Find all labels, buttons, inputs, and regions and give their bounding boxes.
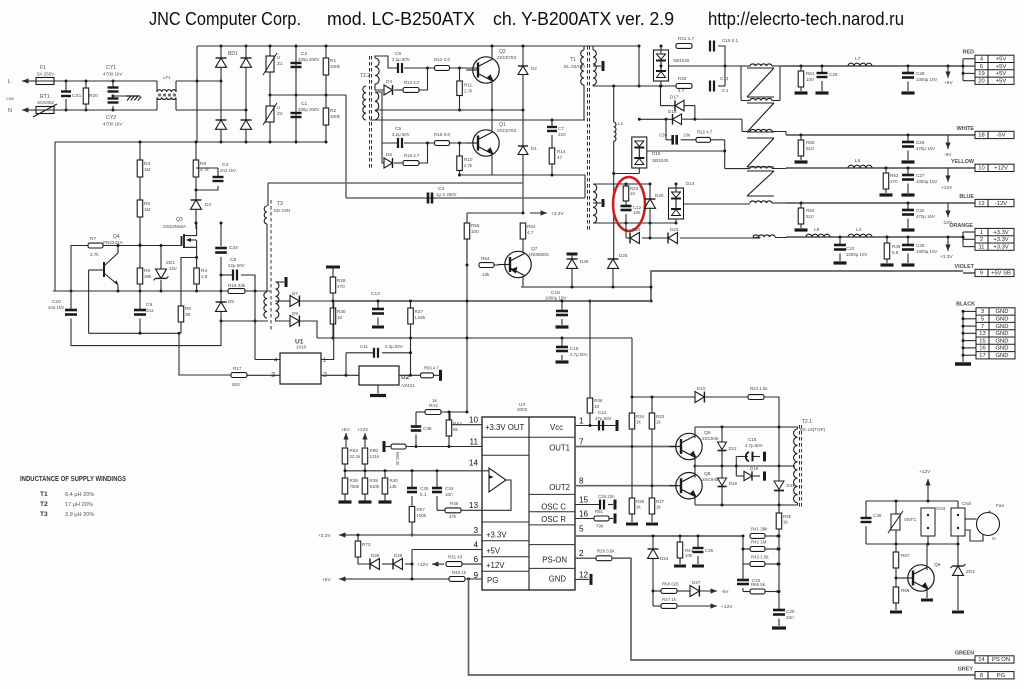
svg-text:39k: 39k	[144, 274, 152, 279]
svg-text:+12V: +12V	[941, 185, 953, 191]
svg-text:22.1k: 22.1k	[350, 454, 362, 459]
svg-text:R54: R54	[806, 208, 815, 213]
svg-text:R13 4.7: R13 4.7	[404, 80, 420, 85]
svg-text:7: 7	[981, 324, 984, 330]
svg-text:R68: R68	[901, 588, 910, 593]
svg-text:R20: R20	[89, 93, 98, 99]
svg-text:0.1: 0.1	[420, 492, 427, 497]
svg-text:16: 16	[979, 346, 985, 352]
svg-text:R50: R50	[806, 140, 815, 145]
svg-text:C21: C21	[598, 410, 607, 415]
svg-text:8: 8	[579, 477, 584, 486]
svg-text:C19 0.1: C19 0.1	[722, 38, 739, 43]
svg-text:10k: 10k	[685, 553, 693, 558]
svg-text:1000μ 10V: 1000μ 10V	[916, 77, 937, 82]
svg-text:PG: PG	[487, 576, 498, 585]
svg-text:+3.3V: +3.3V	[486, 531, 507, 540]
svg-text:C20: C20	[786, 609, 795, 614]
svg-text:18: 18	[978, 133, 984, 139]
svg-text:GREEN: GREEN	[955, 651, 974, 657]
svg-text:CY1: CY1	[106, 65, 116, 71]
svg-text:6: 6	[980, 64, 983, 70]
svg-text:3.9 μH 20%: 3.9 μH 20%	[65, 512, 94, 518]
svg-text:R42 1M: R42 1M	[751, 540, 767, 545]
svg-text:C38: C38	[873, 513, 882, 518]
svg-text:-5V: -5V	[996, 133, 1005, 139]
svg-text:10: 10	[630, 191, 635, 196]
svg-text:D29: D29	[371, 553, 380, 558]
svg-text:D14: D14	[686, 181, 695, 186]
svg-text:0.1: 0.1	[722, 88, 729, 93]
svg-text:2: 2	[579, 549, 584, 558]
svg-text:R41 39k: R41 39k	[751, 527, 768, 532]
svg-text:R38: R38	[350, 478, 359, 483]
svg-text:D3: D3	[205, 202, 211, 207]
svg-text:GREY: GREY	[958, 667, 974, 673]
svg-text:R49: R49	[892, 244, 901, 249]
svg-text:+5V: +5V	[996, 57, 1007, 63]
svg-text:13: 13	[469, 501, 479, 510]
svg-text:121k: 121k	[370, 454, 380, 459]
svg-text:+5V: +5V	[322, 577, 331, 583]
svg-text:Q6: Q6	[934, 562, 941, 568]
svg-text:+12V: +12V	[486, 561, 505, 570]
svg-text:CY2: CY2	[106, 115, 116, 121]
svg-text:L1: L1	[618, 121, 624, 127]
svg-text:1000μ 16V: 1000μ 16V	[916, 179, 937, 184]
svg-text:2.7k: 2.7k	[464, 89, 473, 94]
svg-text:+3.3V: +3.3V	[318, 533, 331, 539]
svg-text:R40: R40	[390, 478, 399, 483]
svg-text:Q3: Q3	[176, 217, 183, 223]
svg-text:JNC Computer Corp.: JNC Computer Corp.	[149, 8, 301, 29]
svg-text:T2: T2	[40, 501, 48, 508]
svg-text:D15: D15	[652, 151, 661, 156]
svg-text:1010: 1010	[296, 345, 307, 350]
svg-text:4700 1kV: 4700 1kV	[103, 122, 123, 127]
svg-text:11: 11	[978, 244, 984, 250]
svg-text:R57: R57	[417, 507, 426, 512]
svg-text:D16: D16	[729, 481, 738, 486]
svg-text:C30: C30	[420, 486, 429, 491]
svg-text:YELLOW: YELLOW	[951, 159, 975, 165]
svg-text:+12V: +12V	[721, 604, 733, 610]
svg-text:D12: D12	[729, 446, 738, 451]
svg-text:R33: R33	[656, 414, 665, 419]
svg-text:13k: 13k	[482, 272, 490, 277]
svg-text:1000μ 10V: 1000μ 10V	[846, 252, 867, 257]
svg-text:1k: 1k	[656, 505, 661, 510]
svg-text:4: 4	[473, 541, 478, 550]
svg-text:T1: T1	[40, 491, 48, 498]
svg-text:C34: C34	[229, 245, 238, 251]
svg-text:2n2 1kV: 2n2 1kV	[220, 168, 236, 173]
svg-text:CX1: CX1	[72, 93, 82, 99]
svg-text:C25: C25	[916, 243, 925, 248]
svg-text:100: 100	[806, 77, 814, 82]
svg-text:470: 470	[337, 284, 345, 289]
svg-text:D24: D24	[660, 556, 669, 561]
svg-text:1M: 1M	[144, 167, 151, 172]
svg-text:http://elecrto-tech.narod.ru: http://elecrto-tech.narod.ru	[708, 8, 904, 29]
svg-text:+5V: +5V	[341, 427, 350, 433]
svg-text:+5V: +5V	[996, 79, 1007, 85]
svg-text:12: 12	[579, 571, 589, 580]
svg-text:PG: PG	[997, 673, 1006, 679]
svg-text:L7: L7	[855, 56, 861, 62]
svg-text:T2.1: T2.1	[802, 419, 812, 425]
svg-text:C15: C15	[570, 346, 579, 351]
svg-text:BLUE: BLUE	[959, 194, 974, 200]
svg-text:4.7: 4.7	[527, 230, 534, 235]
svg-text:+3.3V: +3.3V	[993, 244, 1008, 250]
svg-text:OUT1: OUT1	[549, 444, 570, 453]
svg-text:+5V: +5V	[996, 71, 1007, 77]
svg-text:R61: R61	[806, 71, 815, 76]
svg-text:1μ X 250V: 1μ X 250V	[436, 192, 457, 197]
svg-text:R63: R63	[350, 448, 359, 453]
svg-text:R66 20: R66 20	[395, 452, 400, 466]
svg-text:10: 10	[978, 166, 984, 172]
svg-text:R55: R55	[471, 223, 480, 228]
svg-text:1000μ 10V: 1000μ 10V	[916, 249, 937, 254]
svg-text:5k: 5k	[453, 427, 459, 432]
svg-text:100: 100	[471, 229, 479, 234]
svg-text:C32: C32	[916, 208, 925, 213]
svg-text:U: U	[277, 105, 280, 110]
svg-text:22μ 50V: 22μ 50V	[228, 263, 245, 268]
svg-text:EE-16(TOP): EE-16(TOP)	[800, 427, 826, 432]
svg-text:6.4 μH 20%: 6.4 μH 20%	[65, 492, 94, 498]
svg-text:47: 47	[557, 155, 563, 160]
svg-text:C15: C15	[748, 437, 757, 442]
svg-text:R53: R53	[890, 173, 899, 178]
svg-text:3: 3	[981, 309, 984, 315]
svg-text:AZ431: AZ431	[401, 383, 415, 388]
svg-text:2.7k: 2.7k	[464, 163, 473, 168]
svg-text:C26 22n: C26 22n	[598, 494, 615, 499]
svg-text:10n: 10n	[683, 133, 691, 138]
svg-text:47μ 50V: 47μ 50V	[595, 416, 612, 421]
svg-text:T1: T1	[570, 57, 576, 63]
svg-text:2SC5763: 2SC5763	[497, 128, 517, 133]
svg-text:RA2: RA2	[453, 421, 462, 426]
svg-text:GND: GND	[996, 317, 1009, 323]
svg-text:INDUCTANCE OF SUPPLY WINDINGS: INDUCTANCE OF SUPPLY WINDINGS	[20, 474, 126, 483]
svg-text:R39: R39	[370, 478, 379, 483]
svg-text:4.7μ 50V: 4.7μ 50V	[570, 352, 588, 357]
svg-text:+3.3V OUT: +3.3V OUT	[485, 423, 524, 432]
svg-text:2SC945: 2SC945	[702, 436, 719, 441]
svg-text:820: 820	[232, 382, 240, 387]
svg-text:R15 0.0: R15 0.0	[434, 132, 451, 137]
svg-text:2.7k: 2.7k	[90, 252, 99, 257]
svg-text:R65 5k: R65 5k	[751, 582, 766, 587]
svg-text:910k: 910k	[370, 484, 380, 489]
svg-text:510: 510	[806, 146, 814, 151]
svg-text:+12V: +12V	[417, 562, 429, 568]
svg-text:R46 1k: R46 1k	[452, 570, 467, 575]
svg-text:C29: C29	[916, 140, 925, 145]
svg-text:m: m	[992, 536, 996, 541]
svg-text:D6: D6	[386, 152, 392, 157]
svg-text:470μ 16V: 470μ 16V	[916, 214, 935, 219]
svg-text:100k: 100k	[417, 513, 427, 518]
svg-text:R43 1.5k: R43 1.5k	[751, 555, 769, 560]
svg-text:220: 220	[558, 132, 566, 137]
svg-text:D22: D22	[632, 227, 641, 232]
svg-text:ORANGE: ORANGE	[949, 223, 973, 229]
svg-text:T2.2: T2.2	[360, 73, 370, 79]
svg-text:2.2μ 50V: 2.2μ 50V	[392, 57, 410, 62]
svg-text:HE8550S: HE8550S	[529, 252, 549, 257]
svg-text:L8: L8	[814, 227, 820, 233]
svg-text:20: 20	[978, 79, 984, 85]
svg-text:+3.3V: +3.3V	[551, 211, 564, 217]
svg-text:1k: 1k	[783, 520, 788, 525]
svg-text:R21 4.7: R21 4.7	[678, 36, 695, 41]
svg-text:SB1040: SB1040	[652, 158, 669, 163]
svg-text:R14: R14	[557, 149, 566, 154]
svg-text:10n: 10n	[633, 210, 641, 215]
svg-text:D1: D1	[531, 146, 537, 151]
svg-text:R7: R7	[90, 236, 96, 242]
svg-text:D23: D23	[670, 227, 679, 232]
svg-text:47k: 47k	[449, 514, 457, 519]
svg-text:EE-19N: EE-19N	[274, 208, 290, 213]
svg-text:+5V: +5V	[944, 80, 953, 86]
svg-text:3: 3	[271, 370, 275, 379]
svg-text:+5V: +5V	[996, 64, 1007, 70]
svg-text:PN2222A: PN2222A	[103, 240, 124, 245]
svg-text:R22 4.7: R22 4.7	[697, 130, 713, 135]
svg-text:OSC R: OSC R	[541, 515, 566, 524]
svg-text:CN4: CN4	[962, 501, 972, 506]
svg-text:R73: R73	[362, 542, 371, 547]
svg-text:R52: R52	[527, 224, 536, 229]
svg-text:R8: R8	[185, 306, 191, 311]
svg-text:C7: C7	[558, 126, 564, 131]
svg-text:D25: D25	[619, 253, 628, 258]
svg-text:RED: RED	[963, 50, 974, 56]
svg-text:R34: R34	[636, 414, 645, 419]
svg-text:14: 14	[469, 459, 479, 468]
svg-text:2.2μ 50V: 2.2μ 50V	[385, 344, 403, 349]
svg-text:R67: R67	[901, 553, 910, 558]
svg-text:BLACK: BLACK	[956, 302, 975, 308]
svg-text:RA2: RA2	[429, 403, 438, 408]
svg-text:6.8: 6.8	[892, 250, 899, 255]
svg-text:R27: R27	[415, 309, 424, 314]
svg-text:3: 3	[473, 526, 478, 535]
svg-text:GND: GND	[996, 346, 1009, 352]
svg-text:2003: 2003	[517, 407, 528, 412]
svg-text:+3.3V: +3.3V	[993, 230, 1008, 236]
svg-text:5A 250V: 5A 250V	[37, 72, 55, 77]
svg-text:-5V: -5V	[721, 589, 729, 595]
svg-text:7: 7	[579, 438, 584, 447]
svg-text:+5V: +5V	[486, 547, 501, 556]
svg-text:R29: R29	[636, 499, 645, 504]
svg-text:330μ 200V: 330μ 200V	[298, 107, 319, 112]
svg-text:GND: GND	[996, 353, 1009, 359]
svg-text:15: 15	[579, 496, 589, 505]
svg-text:R28: R28	[337, 278, 346, 283]
svg-text:D11: D11	[787, 483, 796, 488]
svg-text:R45: R45	[450, 501, 459, 506]
svg-text:750k: 750k	[350, 484, 360, 489]
svg-text:D28: D28	[394, 553, 403, 558]
svg-text:Fan: Fan	[996, 503, 1005, 509]
svg-text:ZD3: ZD3	[966, 569, 975, 574]
svg-text:D18: D18	[668, 109, 677, 114]
svg-text:1M: 1M	[144, 207, 151, 212]
svg-text:R17: R17	[233, 366, 242, 371]
svg-text:+: +	[988, 509, 991, 515]
svg-text:GND: GND	[996, 338, 1009, 344]
svg-text:R25: R25	[678, 76, 687, 81]
svg-text:CND: CND	[6, 97, 14, 101]
svg-text:-12V: -12V	[995, 201, 1007, 207]
svg-text:R24 1.5k: R24 1.5k	[750, 386, 768, 391]
svg-text:D20: D20	[655, 193, 664, 198]
svg-text:R56 4.7: R56 4.7	[424, 366, 439, 371]
svg-text:BD1: BD1	[228, 51, 238, 57]
svg-text:C25: C25	[829, 72, 838, 77]
svg-text:PS ON: PS ON	[992, 657, 1010, 663]
svg-text:6: 6	[473, 555, 478, 564]
svg-text:13k: 13k	[390, 484, 398, 489]
svg-text:17 μH 20%: 17 μH 20%	[65, 502, 93, 508]
svg-text:Vcc: Vcc	[550, 423, 563, 432]
svg-text:GND: GND	[996, 309, 1009, 315]
svg-text:D9: D9	[292, 311, 298, 316]
svg-text:1.50k: 1.50k	[415, 315, 427, 320]
svg-text:19: 19	[978, 71, 984, 77]
svg-text:mod. LC-B250ATX: mod. LC-B250ATX	[327, 8, 476, 29]
svg-text:10: 10	[469, 416, 479, 425]
svg-text:2: 2	[323, 370, 327, 379]
svg-text:VIOLET: VIOLET	[955, 264, 975, 270]
svg-text:R51: R51	[595, 509, 604, 514]
svg-text:T3: T3	[277, 201, 283, 207]
svg-text:+5V SB: +5V SB	[991, 271, 1011, 277]
svg-text:D17: D17	[670, 95, 679, 100]
svg-text:R47 1k: R47 1k	[662, 597, 677, 602]
svg-text:R54: R54	[481, 256, 490, 261]
svg-text:C11: C11	[360, 344, 369, 349]
svg-text:ZD1: ZD1	[166, 260, 175, 265]
svg-text:16: 16	[579, 510, 589, 519]
svg-text:L4: L4	[856, 227, 862, 233]
svg-text:10: 10	[337, 315, 343, 320]
svg-text:22n: 22n	[786, 615, 794, 620]
svg-text:R30: R30	[337, 309, 346, 314]
svg-text:R10: R10	[464, 157, 473, 162]
svg-text:2: 2	[980, 237, 983, 243]
svg-text:D19: D19	[750, 466, 759, 471]
svg-text:C13: C13	[371, 291, 380, 297]
svg-text:1k: 1k	[432, 398, 438, 403]
svg-text:1k: 1k	[636, 505, 641, 510]
svg-text:+3.3V: +3.3V	[940, 254, 953, 260]
svg-text:OUT2: OUT2	[549, 483, 570, 492]
svg-text:330μ 200V: 330μ 200V	[298, 57, 319, 62]
svg-text:330k: 330k	[330, 64, 341, 69]
svg-text:79k: 79k	[596, 524, 604, 529]
svg-text:LF1: LF1	[163, 75, 171, 80]
svg-text:15V: 15V	[169, 266, 177, 271]
svg-text:330k: 330k	[330, 114, 341, 119]
svg-text:Z2: Z2	[277, 111, 283, 117]
svg-text:GND: GND	[549, 575, 567, 584]
svg-text:9: 9	[980, 271, 983, 277]
svg-text:D7: D7	[292, 291, 298, 296]
svg-text:SSS2N60A: SSS2N60A	[163, 224, 187, 229]
svg-text:4.7: 4.7	[678, 88, 685, 93]
svg-text:R36: R36	[594, 398, 603, 403]
svg-text:R26 3.6k: R26 3.6k	[597, 549, 615, 554]
svg-text:11: 11	[470, 438, 479, 447]
svg-text:39: 39	[185, 312, 191, 317]
svg-text:SNTC: SNTC	[904, 517, 917, 522]
svg-text:1: 1	[579, 417, 584, 426]
svg-text:L: L	[8, 79, 11, 85]
svg-text:15: 15	[979, 338, 985, 344]
svg-text:C38: C38	[423, 426, 432, 431]
svg-text:D2: D2	[531, 66, 537, 71]
svg-text:2n2: 2n2	[146, 308, 154, 313]
svg-text:C22: C22	[846, 246, 855, 251]
svg-text:R12 0.0: R12 0.0	[434, 57, 451, 62]
svg-text:R35: R35	[783, 514, 792, 519]
svg-text:OSC C: OSC C	[541, 503, 566, 512]
svg-text:8: 8	[980, 673, 983, 679]
svg-text:U: U	[277, 55, 280, 60]
svg-text:-5V: -5V	[944, 152, 952, 158]
svg-text:L6: L6	[855, 158, 861, 164]
svg-text:SCK052: SCK052	[37, 100, 55, 105]
svg-text:13: 13	[979, 331, 985, 337]
svg-text:4.7μ 50V: 4.7μ 50V	[745, 443, 763, 448]
svg-text:5: 5	[579, 525, 584, 534]
svg-text:10: 10	[594, 404, 600, 409]
svg-text:+12V: +12V	[919, 469, 931, 475]
svg-text:12: 12	[978, 201, 984, 207]
svg-text:D27: D27	[692, 580, 701, 585]
svg-text:+12V: +12V	[357, 427, 369, 433]
svg-text:D5: D5	[228, 299, 234, 304]
svg-text:R31 43: R31 43	[448, 555, 463, 560]
svg-text:F1: F1	[40, 65, 46, 71]
svg-text:D10: D10	[697, 386, 706, 391]
svg-text:N: N	[8, 108, 12, 114]
svg-text:C24: C24	[445, 486, 454, 491]
svg-text:C14: C14	[720, 76, 729, 81]
svg-text:R60: R60	[370, 448, 379, 453]
svg-text:R16 33k: R16 33k	[228, 283, 246, 288]
svg-text:2SC945: 2SC945	[702, 477, 719, 482]
svg-text:GND: GND	[996, 324, 1009, 330]
svg-text:+12V: +12V	[994, 166, 1008, 172]
svg-text:2n2 1kV: 2n2 1kV	[48, 305, 64, 310]
svg-text:C35: C35	[659, 133, 668, 138]
svg-text:T3: T3	[40, 511, 48, 518]
svg-text:C28: C28	[916, 71, 925, 76]
svg-text:WHITE: WHITE	[957, 126, 975, 132]
svg-text:SB1040: SB1040	[673, 58, 690, 63]
svg-text:GND: GND	[996, 331, 1009, 337]
